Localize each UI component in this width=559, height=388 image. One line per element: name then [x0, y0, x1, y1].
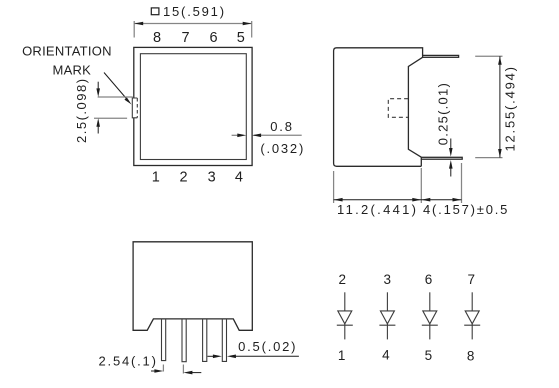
svg-text:5: 5 — [425, 348, 433, 363]
svg-text:1: 1 — [152, 170, 160, 186]
svg-text:1: 1 — [338, 348, 346, 363]
svg-text:0.8: 0.8 — [270, 119, 293, 134]
svg-text:8: 8 — [467, 348, 475, 363]
svg-text:4: 4 — [235, 170, 243, 186]
svg-text:0.25(.01): 0.25(.01) — [436, 82, 451, 145]
svg-text:2: 2 — [180, 170, 188, 186]
svg-text:15(.591): 15(.591) — [163, 4, 226, 19]
svg-text:6: 6 — [425, 272, 433, 287]
svg-text:(.032): (.032) — [260, 141, 305, 156]
svg-text:2: 2 — [339, 272, 347, 287]
svg-text:0.5(.02): 0.5(.02) — [238, 339, 297, 354]
svg-text:2.54(.1): 2.54(.1) — [99, 353, 158, 368]
svg-text:8: 8 — [153, 30, 161, 46]
svg-text:5: 5 — [237, 30, 245, 46]
svg-text:11.2(.441): 11.2(.441) — [337, 202, 418, 217]
svg-text:ORIENTATION: ORIENTATION — [22, 44, 112, 59]
svg-text:12.55(.494): 12.55(.494) — [503, 65, 518, 151]
svg-text:2.5(.098): 2.5(.098) — [74, 77, 89, 143]
svg-text:7: 7 — [467, 272, 475, 287]
svg-text:MARK: MARK — [53, 63, 92, 78]
svg-text:3: 3 — [208, 170, 216, 186]
svg-text:3: 3 — [384, 272, 392, 287]
svg-text:6: 6 — [210, 30, 218, 46]
svg-text:7: 7 — [181, 30, 189, 46]
svg-text:4: 4 — [382, 348, 390, 363]
svg-text:4(.157)±0.5: 4(.157)±0.5 — [423, 202, 509, 217]
